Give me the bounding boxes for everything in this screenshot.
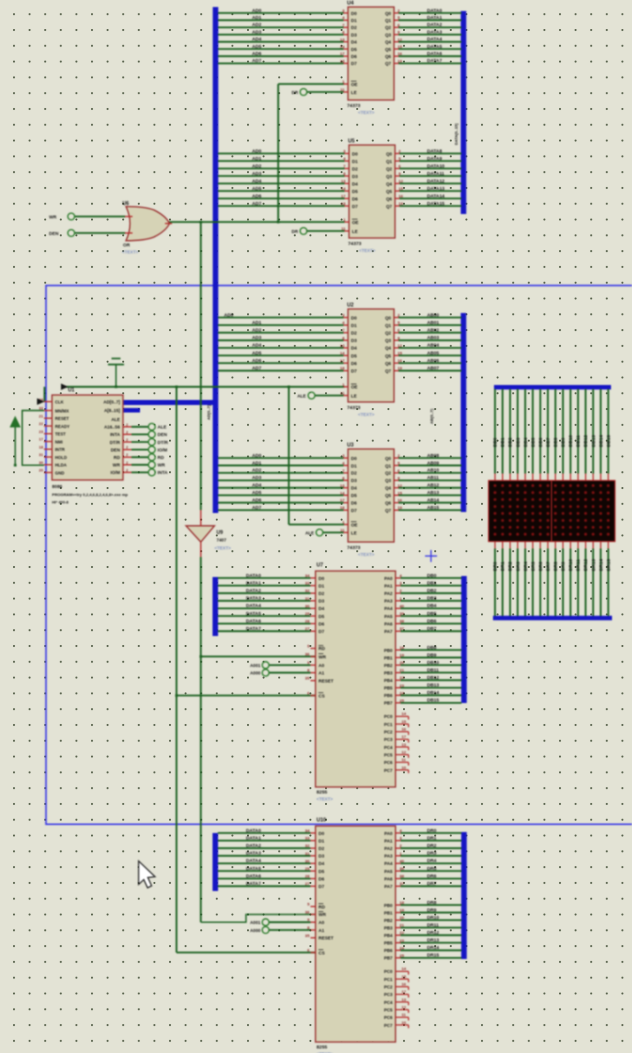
U10 wire PA1 to bus [396, 840, 401, 842]
svg-text:15: 15 [399, 186, 404, 191]
svg-text:PB4: PB4 [384, 678, 393, 683]
svg-text:D2: D2 [351, 331, 357, 336]
U5 wire D0 from bus [218, 153, 345, 155]
U4 wire Q6 to bus [394, 55, 399, 57]
svg-text:23: 23 [400, 938, 405, 943]
svg-text:DATA2: DATA2 [246, 588, 261, 593]
U7 wire D4 from stub bus [218, 607, 311, 609]
svg-text:DB13: DB13 [591, 435, 596, 447]
svg-text:Q7: Q7 [386, 204, 392, 209]
svg-text:DR8: DR8 [553, 561, 558, 571]
svg-text:DR5: DR5 [427, 866, 437, 871]
svg-text:CS: CS [319, 693, 325, 698]
bus: matrix bottom bus [493, 616, 612, 621]
U1 pin stub right RD [123, 456, 132, 458]
svg-text:PC4: PC4 [384, 745, 393, 750]
svg-text:PROGRAM=<try 0,2,4,6,8,2,4,6,8: PROGRAM=<try 0,2,4,6,8,2,4,6,8>.exe mp [52, 492, 128, 497]
svg-text:PB0: PB0 [384, 903, 393, 908]
svg-text:D6: D6 [352, 196, 358, 201]
bus: matrix top bus [494, 385, 611, 390]
svg-text:Q4: Q4 [385, 40, 391, 45]
svg-text:18: 18 [340, 58, 345, 63]
matrix column wire bottom DR13 [592, 542, 594, 549]
svg-text:DR7: DR7 [427, 881, 437, 886]
svg-text:AD1: AD1 [252, 460, 262, 465]
svg-text:AD[0..7]: AD[0..7] [206, 404, 211, 420]
U10 pin stub D0 [311, 832, 316, 834]
svg-text:24: 24 [400, 690, 405, 695]
svg-text:HLDA: HLDA [55, 463, 67, 468]
latch U2 74373 body [348, 309, 394, 402]
U7 wire PB4 to bus [396, 679, 401, 681]
svg-text:AB12: AB12 [427, 483, 439, 488]
svg-text:DATA3: DATA3 [427, 29, 442, 34]
svg-text:DR14: DR14 [427, 945, 439, 950]
svg-text:35: 35 [305, 676, 310, 681]
svg-text:Q7: Q7 [385, 369, 391, 374]
U5 wire D3 from bus [218, 175, 345, 177]
svg-text:DATA4: DATA4 [246, 603, 261, 608]
U4 wire D1 from bus [218, 19, 344, 21]
matrix column wire bottom DR8 [554, 542, 556, 549]
U10 wire PB6 to bus [396, 949, 401, 951]
svg-text:AD1: AD1 [252, 15, 262, 20]
svg-text:DT/R: DT/R [158, 440, 169, 445]
origin marker blue plus [425, 550, 437, 562]
svg-text:16: 16 [398, 358, 403, 363]
svg-text:U2: U2 [347, 303, 354, 309]
svg-text:AD6: AD6 [252, 193, 262, 198]
svg-text:17: 17 [340, 498, 345, 503]
U5 pin stub LE [345, 230, 350, 232]
wire: vertical CS chain x=176.5 [176, 387, 178, 953]
svg-text:DR10: DR10 [427, 915, 439, 920]
wire: OR gate output horizontal to U5 OE [165, 221, 345, 223]
svg-text:U4: U4 [347, 1, 354, 7]
svg-text:NMI: NMI [55, 439, 63, 444]
svg-text:U5: U5 [348, 139, 355, 145]
U4 wire D5 from bus [218, 48, 344, 50]
svg-text:AB14: AB14 [427, 498, 439, 503]
svg-text:DATA14: DATA14 [427, 193, 445, 198]
svg-text:D3: D3 [319, 599, 325, 604]
junction U1 loop [14, 464, 17, 467]
svg-text:LE: LE [351, 530, 357, 535]
svg-text:D7: D7 [319, 629, 325, 634]
svg-text:A0: A0 [319, 663, 325, 668]
svg-text:DR0: DR0 [493, 561, 498, 571]
svg-text:DB14: DB14 [598, 435, 603, 447]
terminal A001 for U7 A0 [269, 664, 311, 666]
wire: vertical from OR gate output down to buffer U9 [200, 222, 202, 510]
svg-text:PC3: PC3 [384, 737, 393, 742]
selection rectangle (blue) [46, 286, 632, 825]
svg-text:AD4: AD4 [252, 343, 262, 348]
U10 wire D6 from stub bus [218, 878, 311, 880]
U10 pin stub PC3 (unconnected) [396, 993, 409, 995]
svg-text:PB5: PB5 [384, 686, 393, 691]
U7 pin stub A1 [311, 672, 316, 674]
U3 wire Q4 to bus [394, 487, 399, 489]
junction CS chain at U7 [175, 694, 178, 697]
wire: vertical U2 OE to U3 OE [288, 387, 290, 525]
svg-text:2: 2 [126, 438, 128, 442]
U3 wire D5 from bus [218, 494, 344, 496]
U7 pin stub PC0 (unconnected) [396, 715, 409, 717]
matrix column wire top DB7 [547, 389, 549, 474]
U10 wire PB5 to bus [396, 942, 401, 944]
svg-text:16: 16 [399, 194, 404, 199]
svg-text:14: 14 [340, 490, 345, 495]
wire U1 to terminal DT/R [132, 441, 149, 443]
svg-text:CLK: CLK [55, 399, 64, 404]
U7 wire D7 from stub bus [218, 630, 311, 632]
U1 pin stub HLDA [44, 464, 52, 466]
matrix column wire bottom DR11 [577, 542, 579, 549]
svg-text:PC6: PC6 [384, 1015, 393, 1020]
svg-text:INTA: INTA [158, 470, 169, 475]
svg-text:DATA5: DATA5 [246, 866, 261, 871]
svg-text:LE: LE [351, 393, 357, 398]
U7 pin stub PC2 (unconnected) [396, 731, 409, 733]
svg-text:13: 13 [340, 483, 345, 488]
svg-text:Q1: Q1 [386, 159, 392, 164]
U10 wire PA3 to bus [396, 855, 401, 857]
svg-text:DB8: DB8 [553, 437, 558, 447]
svg-text:16: 16 [402, 982, 407, 987]
U7 wire PA6 to bus [396, 623, 401, 625]
svg-text:13: 13 [341, 179, 346, 184]
svg-text:Q6: Q6 [385, 361, 391, 366]
U10 wire PA6 to bus [396, 878, 401, 880]
junction OR output [200, 221, 203, 224]
svg-text:<TEXT>: <TEXT> [358, 552, 375, 557]
U3 wire D0 from bus [218, 457, 344, 459]
bus: horizontal AD bus from U1 [123, 400, 217, 405]
svg-text:DR14: DR14 [598, 559, 603, 571]
svg-text:32: 32 [305, 843, 310, 848]
svg-text:AD5: AD5 [252, 490, 262, 495]
svg-text:DATA2: DATA2 [246, 843, 261, 848]
svg-text:Q3: Q3 [386, 174, 392, 179]
U3 pin stub LE [344, 532, 349, 534]
matrix column wire bottom DR6 [539, 542, 541, 549]
svg-text:PB3: PB3 [384, 670, 393, 675]
U7 wire PA0 to bus [396, 577, 401, 579]
svg-text:36: 36 [305, 652, 310, 657]
svg-text:15: 15 [402, 974, 407, 979]
U1 pin stub right WR [123, 464, 132, 466]
svg-text:19: 19 [399, 201, 404, 206]
svg-text:DR1: DR1 [500, 561, 505, 571]
bus: top right DATA bus [461, 11, 467, 214]
U2 wire D4 from bus [218, 347, 344, 349]
U1 pin stub INTR [44, 448, 52, 450]
svg-text:DR11: DR11 [427, 922, 439, 927]
U4 pin stub LE [344, 91, 349, 93]
U5 wire D7 from bus [218, 205, 345, 207]
svg-text:39: 39 [400, 866, 405, 871]
svg-text:17: 17 [341, 194, 346, 199]
svg-text:DATA5: DATA5 [246, 611, 261, 616]
svg-text:AD1: AD1 [252, 156, 262, 161]
svg-text:A1: A1 [319, 928, 325, 933]
svg-text:OE: OE [351, 522, 358, 527]
svg-text:PB6: PB6 [384, 948, 393, 953]
svg-text:PB2: PB2 [384, 663, 393, 668]
U10 pin stub PC1 (unconnected) [396, 978, 409, 980]
terminal ALE [148, 423, 155, 430]
svg-text:14: 14 [402, 711, 407, 716]
wire: U10 CS from chain [177, 952, 316, 954]
svg-text:36: 36 [305, 909, 310, 914]
svg-text:19: 19 [398, 58, 403, 63]
U7 pin stub PC6 (unconnected) [396, 761, 409, 763]
svg-text:PA5: PA5 [384, 614, 393, 619]
svg-text:PC3: PC3 [384, 992, 393, 997]
terminal INTA [148, 469, 155, 476]
wire U1 to terminal WR [132, 464, 149, 466]
svg-text:DATA11: DATA11 [427, 171, 445, 176]
svg-text:U1: U1 [68, 388, 75, 394]
U3 wire Q2 to bus [394, 472, 399, 474]
svg-text:18: 18 [400, 645, 405, 650]
U1 pin stub right IO/M [123, 449, 132, 451]
svg-text:AB02: AB02 [427, 328, 439, 333]
svg-text:21: 21 [39, 414, 43, 418]
svg-text:20: 20 [39, 469, 43, 473]
svg-text:<TEXT>: <TEXT> [358, 110, 375, 115]
svg-text:PA2: PA2 [384, 846, 393, 851]
svg-text:17: 17 [340, 51, 345, 56]
svg-text:28: 28 [305, 619, 310, 624]
svg-text:17: 17 [340, 358, 345, 363]
svg-text:14: 14 [341, 186, 346, 191]
svg-text:Q4: Q4 [386, 181, 392, 186]
svg-text:25: 25 [400, 698, 405, 703]
svg-text:WR: WR [113, 463, 121, 468]
U2 pin stub D4 [344, 347, 349, 349]
U4 pin stub D4 [344, 41, 349, 43]
svg-text:DEN: DEN [49, 231, 59, 236]
terminal A000 for U10 A1 [269, 929, 311, 931]
svg-text:D0: D0 [352, 151, 358, 156]
U7 wire PB2 to bus [396, 664, 401, 666]
U10 pin stub D6 [311, 878, 316, 880]
svg-text:HI* 400-8: HI* 400-8 [52, 500, 69, 505]
svg-text:2: 2 [126, 430, 128, 434]
svg-text:35: 35 [305, 933, 310, 938]
svg-text:19: 19 [400, 908, 405, 913]
U2 pin stub LE [344, 395, 349, 397]
svg-text:Q0: Q0 [385, 456, 391, 461]
svg-text:Q2: Q2 [386, 166, 392, 171]
U10 wire PA4 to bus [396, 862, 401, 864]
svg-text:74373: 74373 [347, 103, 361, 109]
svg-text:DR11: DR11 [576, 559, 581, 571]
U7 pin stub PC5 (unconnected) [396, 754, 409, 756]
svg-text:<TEXT>: <TEXT> [122, 250, 139, 255]
svg-text:D0: D0 [351, 315, 357, 320]
svg-text:D1: D1 [351, 463, 357, 468]
svg-text:D6: D6 [351, 54, 357, 59]
svg-text:DB4: DB4 [523, 437, 528, 447]
svg-text:U3: U3 [347, 443, 354, 449]
U7 wire PB6 to bus [396, 694, 401, 696]
svg-text:DB15: DB15 [427, 698, 439, 703]
matrix led dots [494, 484, 610, 535]
U10 pin stub CS [311, 952, 316, 954]
svg-text:28: 28 [305, 874, 310, 879]
svg-text:AD3: AD3 [252, 335, 262, 340]
svg-text:PA2: PA2 [384, 591, 393, 596]
svg-text:DATA1: DATA1 [427, 15, 442, 20]
U3 pin stub D6 [344, 502, 349, 504]
matrix column wire top DB1 [502, 389, 504, 474]
wire U1 to terminal RD [132, 456, 149, 458]
U4 pin stub D2 [344, 26, 349, 28]
U3 wire Q6 to bus [394, 502, 399, 504]
svg-text:DATA10: DATA10 [427, 163, 445, 168]
junction U2 OE net [288, 386, 291, 389]
U1 CLK input arrow [37, 398, 45, 405]
U7 wire PB1 to bus [396, 657, 401, 659]
svg-text:Q6: Q6 [386, 196, 392, 201]
U10 pin stub A1 [311, 929, 316, 931]
svg-text:PB1: PB1 [384, 655, 393, 660]
svg-text:AB09: AB09 [427, 460, 439, 465]
svg-text:PC5: PC5 [384, 752, 393, 757]
or-gate U6 [126, 207, 170, 241]
U5 wire Q5 to bus [395, 190, 400, 192]
svg-text:40: 40 [400, 858, 405, 863]
svg-text:IO/M: IO/M [110, 470, 120, 475]
svg-text:D1: D1 [351, 18, 357, 23]
svg-text:27: 27 [305, 626, 310, 631]
svg-text:17: 17 [402, 989, 407, 994]
svg-text:D4: D4 [351, 346, 357, 351]
svg-text:2: 2 [126, 446, 128, 450]
svg-text:29: 29 [305, 611, 310, 616]
U10 pin stub PC5 (unconnected) [396, 1009, 409, 1011]
U5 pin stub D0 [345, 153, 350, 155]
U10 wire D4 from stub bus [218, 862, 311, 864]
U3 wire D2 from bus [218, 472, 344, 474]
U5 pin stub D5 [345, 190, 350, 192]
svg-text:D4: D4 [352, 181, 358, 186]
U2 wire Q4 to bus [394, 347, 399, 349]
matrix column wire bottom DR4 [524, 542, 526, 549]
U7 wire PB5 to bus [396, 687, 401, 689]
U4 pin stub D5 [344, 48, 349, 50]
svg-text:AD5: AD5 [252, 350, 262, 355]
svg-text:D7: D7 [351, 369, 357, 374]
svg-text:WR: WR [319, 912, 327, 917]
U10 wire D3 from stub bus [218, 855, 311, 857]
svg-text:AB[0..7]: AB[0..7] [429, 408, 434, 424]
svg-text:WR: WR [319, 654, 327, 659]
svg-text:D5: D5 [351, 47, 357, 52]
svg-text:DR7: DR7 [545, 561, 550, 571]
svg-text:16: 16 [398, 498, 403, 503]
U2 pin stub D7 [344, 370, 349, 372]
svg-text:U10: U10 [317, 818, 327, 824]
matrix column wire top DB8 [554, 389, 556, 474]
svg-text:TEST: TEST [55, 432, 66, 437]
svg-text:31: 31 [305, 596, 310, 601]
svg-text:A1: A1 [319, 671, 325, 676]
svg-text:INTR: INTR [55, 447, 65, 452]
svg-text:13: 13 [340, 37, 345, 42]
svg-text:A000: A000 [250, 928, 261, 933]
svg-text:Q3: Q3 [385, 32, 391, 37]
svg-text:ALE: ALE [111, 417, 120, 422]
U1 pin stub right ALE [123, 426, 132, 428]
svg-text:AD0: AD0 [252, 148, 262, 153]
svg-text:D5: D5 [319, 614, 325, 619]
U4 pin stub D7 [344, 62, 349, 64]
U2 wire LE from terminal ALE [315, 395, 344, 397]
cpu U1 8086 body [52, 395, 123, 480]
U10 pin stub A0 [311, 921, 316, 923]
svg-text:17: 17 [402, 734, 407, 739]
U3 wire D1 from bus [218, 464, 344, 466]
svg-text:DATA0: DATA0 [246, 573, 261, 578]
U7 wire PA3 to bus [396, 600, 401, 602]
svg-text:PA6: PA6 [384, 876, 393, 881]
svg-text:D2: D2 [352, 166, 358, 171]
svg-text:2: 2 [126, 461, 128, 465]
svg-text:DB1: DB1 [500, 437, 505, 447]
U10 pin stub D4 [311, 862, 316, 864]
bus: left vertical AD bus [213, 7, 219, 513]
U1 pin stub TEST [44, 433, 52, 435]
power terminal above CLK net [115, 365, 117, 388]
U10 pin stub PC2 (unconnected) [396, 986, 409, 988]
U1 pin stub right DT/R [123, 441, 132, 443]
U2 pin stub D5 [344, 355, 349, 357]
svg-text:D1: D1 [319, 583, 325, 588]
svg-text:DB12: DB12 [583, 435, 588, 447]
svg-text:D3: D3 [352, 174, 358, 179]
U7 pin stub CS [311, 695, 316, 697]
svg-text:19: 19 [398, 505, 403, 510]
svg-text:16: 16 [398, 51, 403, 56]
svg-text:DATA0: DATA0 [427, 8, 442, 13]
svg-text:DB12: DB12 [427, 675, 439, 680]
matrix column wire bottom DR0 [494, 542, 496, 549]
svg-text:74373: 74373 [347, 405, 361, 411]
svg-text:RD: RD [114, 455, 120, 460]
svg-text:AD4: AD4 [252, 37, 262, 42]
svg-text:D3: D3 [319, 854, 325, 859]
svg-text:DATA3: DATA3 [246, 596, 261, 601]
svg-text:12: 12 [402, 749, 407, 754]
U7 wire PB3 to bus [396, 672, 401, 674]
terminal DR for U5 [300, 228, 307, 235]
matrix column wire top DB11 [577, 389, 579, 474]
svg-text:<TEXT>: <TEXT> [359, 248, 376, 253]
U7 pin stub D6 [311, 623, 316, 625]
bus: U10 left DATA stub bus [213, 833, 219, 891]
U2 pin stub D3 [344, 339, 349, 341]
svg-text:D1: D1 [319, 838, 325, 843]
svg-text:PC7: PC7 [384, 1023, 393, 1028]
svg-text:2: 2 [126, 468, 128, 472]
svg-text:19: 19 [398, 366, 403, 371]
svg-text:24: 24 [400, 945, 405, 950]
wire U1 to terminal ALE [132, 426, 149, 428]
